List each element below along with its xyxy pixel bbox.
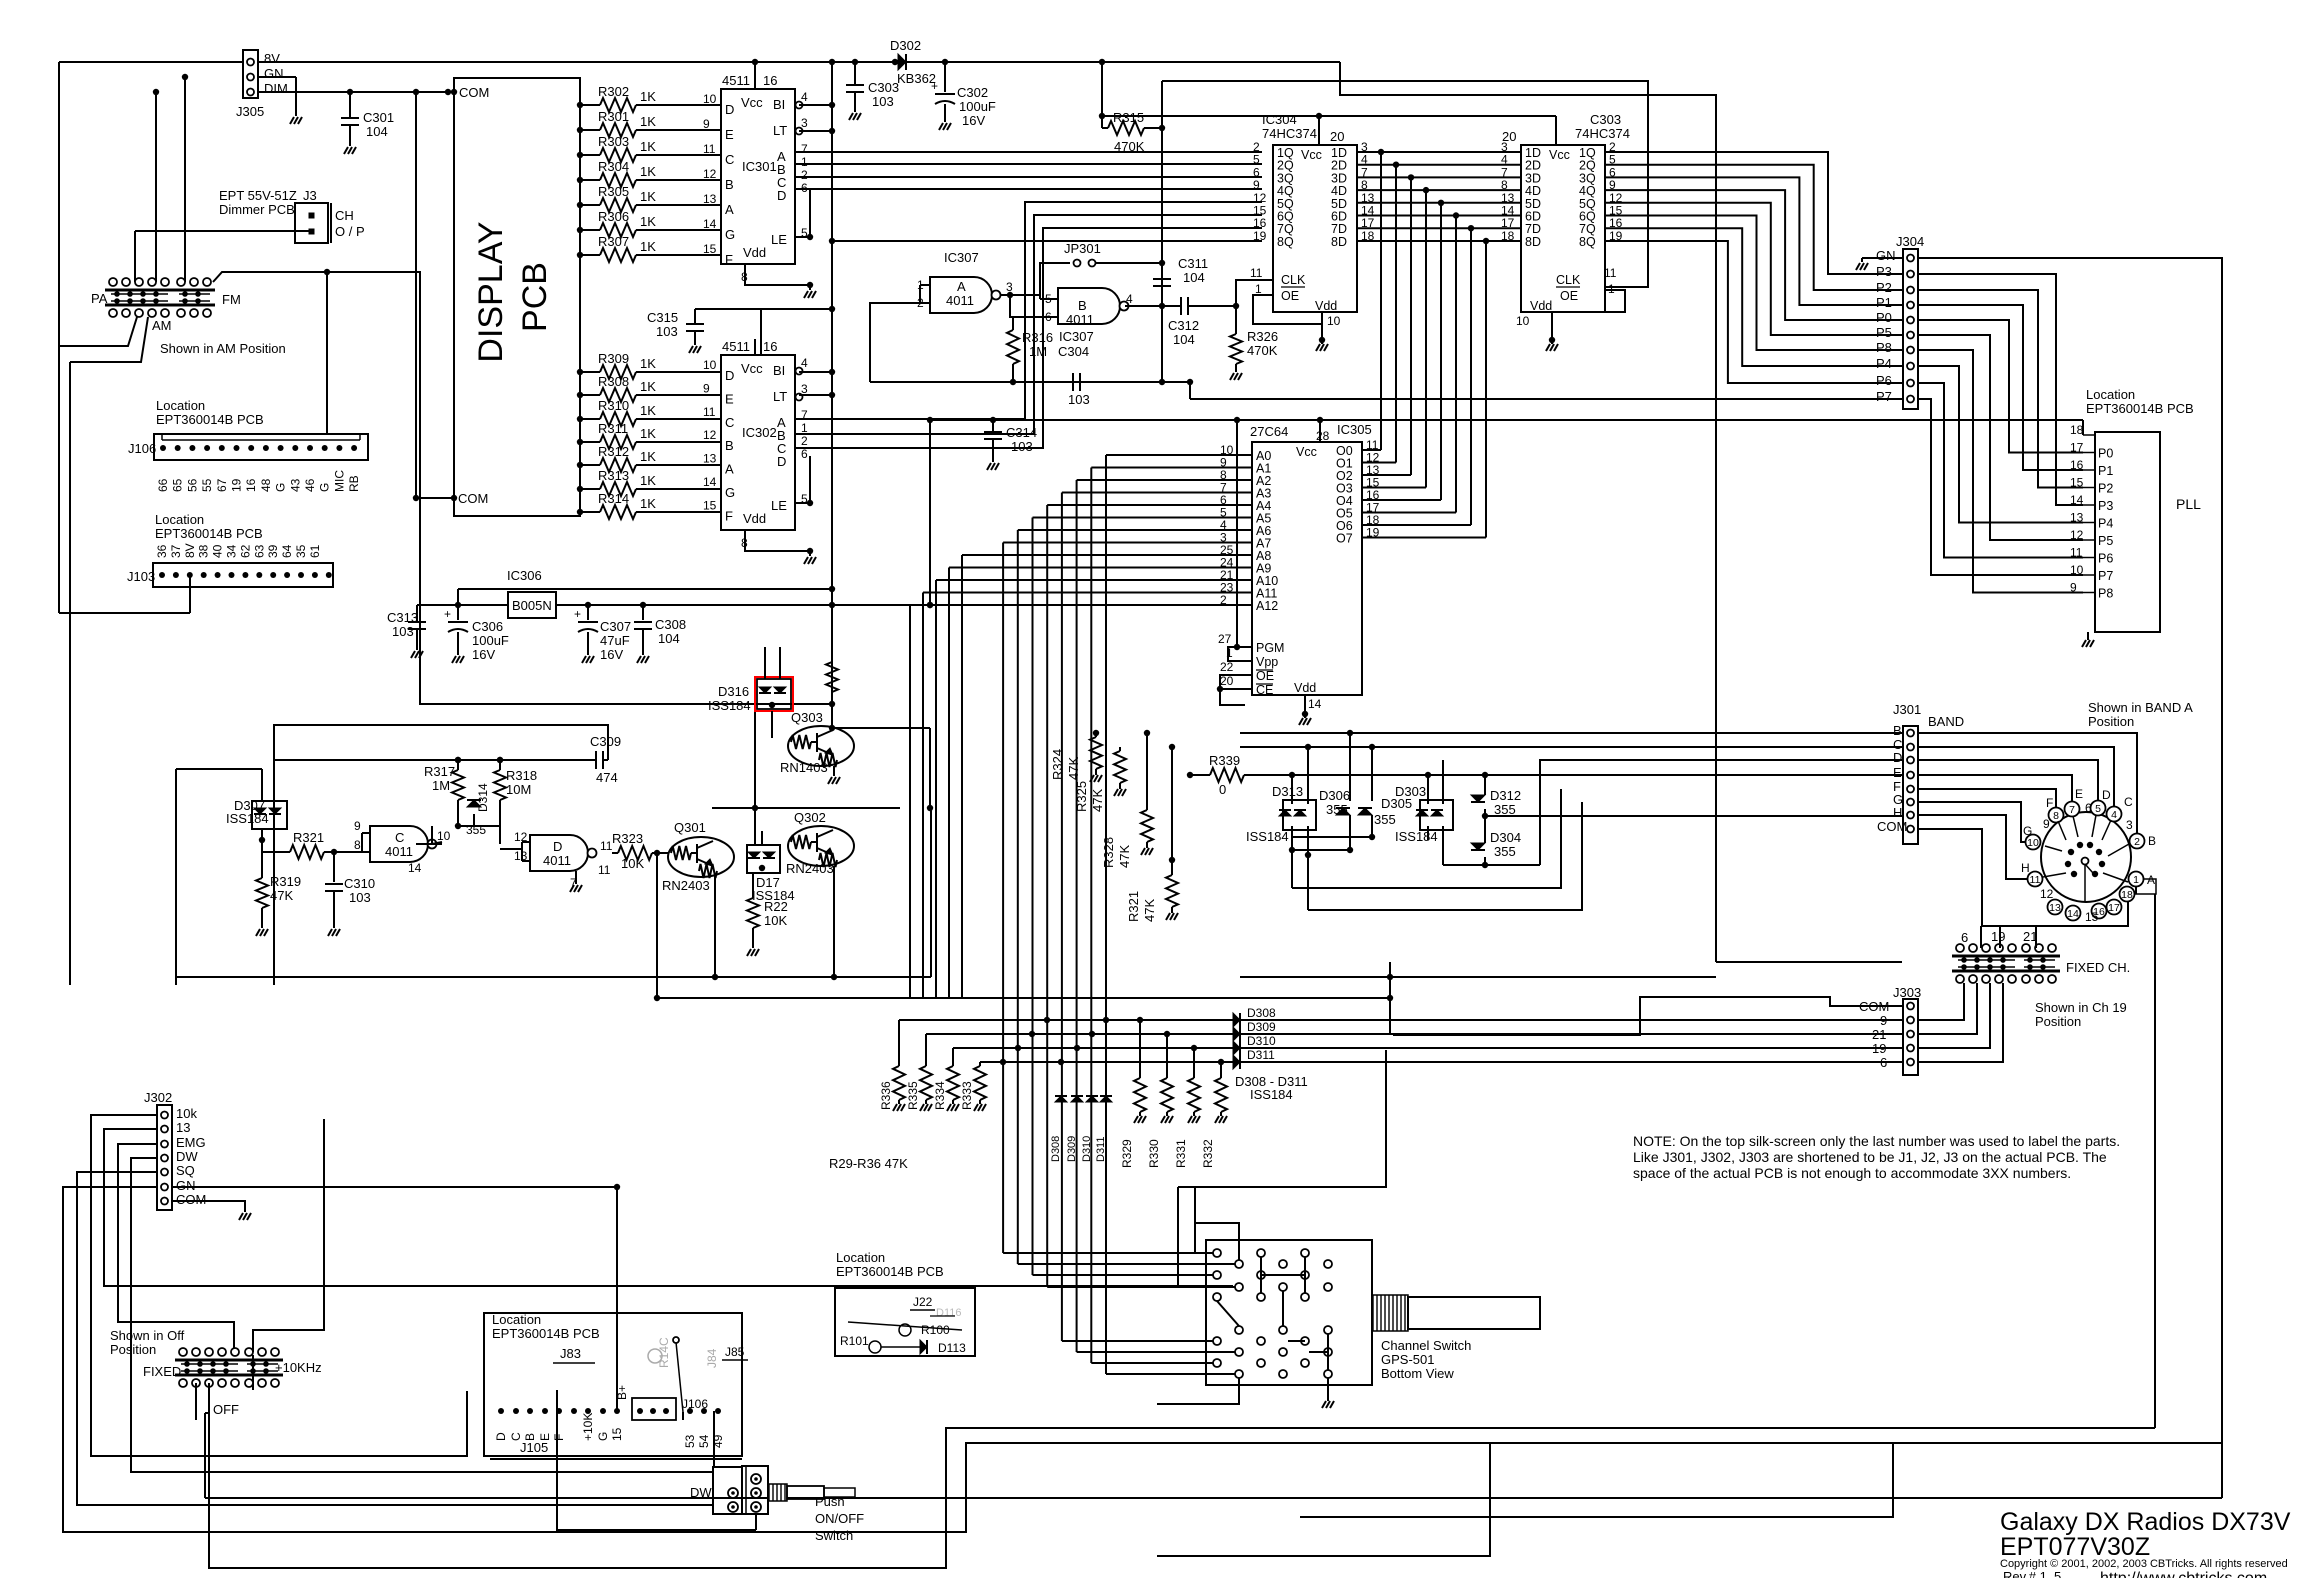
svg-text:7: 7 [2069,804,2075,816]
svg-text:C308: C308 [655,617,686,632]
svg-text:C312: C312 [1168,318,1199,333]
svg-text:P6: P6 [2098,552,2113,566]
svg-text:D310: D310 [1247,1034,1276,1048]
svg-text:J302: J302 [144,1090,172,1105]
svg-text:D: D [553,839,562,854]
svg-text:R309: R309 [598,351,629,366]
svg-text:Vdd: Vdd [1294,681,1316,695]
svg-text:ISS184: ISS184 [1246,829,1289,844]
svg-text:4011: 4011 [1066,312,1094,327]
svg-text:6: 6 [1961,930,1968,945]
svg-text:10K: 10K [764,913,787,928]
svg-text:19: 19 [1366,526,1380,540]
svg-text:1K: 1K [640,214,656,229]
svg-text:47uF: 47uF [600,633,630,648]
svg-text:LE: LE [771,232,787,247]
svg-text:14: 14 [1308,697,1322,711]
svg-text:20: 20 [1502,129,1516,144]
svg-text:16V: 16V [600,647,623,662]
svg-text:Dimmer PCB: Dimmer PCB [219,202,295,217]
svg-text:P7: P7 [1876,389,1892,404]
svg-text:18: 18 [2070,423,2084,437]
svg-text:10: 10 [1327,314,1341,328]
svg-text:4011: 4011 [385,844,413,859]
svg-text:8: 8 [354,838,361,852]
svg-text:Switch: Switch [815,1528,853,1543]
svg-text:RN1403: RN1403 [780,760,828,775]
svg-text:R321: R321 [1126,891,1141,922]
svg-text:IC306: IC306 [507,568,542,583]
svg-text:34: 34 [225,544,239,558]
svg-text:BAND: BAND [1928,714,1964,729]
svg-text:66: 66 [156,478,170,492]
svg-text:R329: R329 [1120,1139,1134,1168]
svg-text:+: + [931,79,938,93]
svg-text:C303: C303 [1590,112,1621,127]
svg-text:A: A [2147,873,2155,887]
svg-text:P5: P5 [1876,325,1892,340]
svg-text:9: 9 [703,117,710,131]
svg-text:Location: Location [155,512,204,527]
svg-text:NOTE: On the top silk-screen o: NOTE: On the top silk-screen only the la… [1633,1133,2120,1149]
svg-text:R328: R328 [1101,837,1116,868]
svg-text:Vpp: Vpp [1256,655,1278,669]
svg-text:10: 10 [437,829,451,843]
svg-text:B: B [2148,834,2156,848]
svg-text:R319: R319 [270,874,301,889]
svg-text:P7: P7 [2098,569,2113,583]
svg-text:R303: R303 [598,134,629,149]
svg-text:56: 56 [185,478,199,492]
svg-text:LE: LE [771,498,787,513]
svg-text:1K: 1K [640,89,656,104]
svg-text:R321: R321 [293,830,324,845]
svg-text:B005N: B005N [512,598,552,613]
svg-text:CLK: CLK [1556,273,1581,287]
svg-text:5: 5 [2095,803,2101,815]
svg-text:D310: D310 [1081,1136,1093,1162]
svg-text:355: 355 [1374,812,1396,827]
svg-text:P0: P0 [1876,310,1892,325]
svg-text:28: 28 [1316,429,1330,443]
svg-text:4011: 4011 [543,853,571,868]
svg-text:8: 8 [2053,810,2059,822]
svg-text:C: C [2124,795,2133,809]
svg-text:B: B [725,177,734,192]
svg-text:C302: C302 [957,85,988,100]
svg-text:74HC374: 74HC374 [1262,126,1317,141]
svg-text:10: 10 [1516,314,1530,328]
svg-text:47K: 47K [1117,845,1132,868]
svg-text:R305: R305 [598,184,629,199]
svg-text:0: 0 [1219,782,1226,797]
svg-text:35: 35 [294,544,308,558]
svg-text:6: 6 [801,447,808,461]
svg-text:1K: 1K [640,139,656,154]
svg-text:Vcc: Vcc [1296,445,1317,459]
svg-text:C306: C306 [472,619,503,634]
svg-text:R316: R316 [1022,330,1053,345]
svg-text:R313: R313 [598,468,629,483]
svg-text:Location: Location [836,1250,885,1265]
svg-text:C301: C301 [363,110,394,125]
svg-text:104: 104 [1183,270,1205,285]
svg-text:D311: D311 [1247,1048,1275,1062]
svg-text:D: D [494,1432,508,1441]
svg-text:D303: D303 [1395,784,1426,799]
svg-text:C310: C310 [344,876,375,891]
svg-text:R101: R101 [840,1334,869,1348]
svg-text:P8: P8 [2098,587,2113,601]
svg-text:P2: P2 [1876,280,1892,295]
svg-text:13: 13 [2049,902,2061,914]
svg-text:D313: D313 [1272,784,1303,799]
svg-text:3: 3 [2126,818,2133,832]
svg-text:R323: R323 [612,831,643,846]
svg-text:C307: C307 [600,619,631,634]
svg-text:PLL: PLL [2176,496,2201,512]
svg-text:Location: Location [156,398,205,413]
svg-text:C315: C315 [647,310,678,325]
svg-text:E: E [725,127,734,142]
svg-text:FIXED CH.: FIXED CH. [2066,960,2130,975]
svg-text:EPT360014B PCB: EPT360014B PCB [155,526,263,541]
svg-text:EPT360014B PCB: EPT360014B PCB [2086,401,2194,416]
svg-text:Q303: Q303 [791,710,823,725]
svg-text:14: 14 [703,475,717,489]
svg-text:11: 11 [703,142,716,156]
svg-text:OE: OE [1560,289,1578,303]
svg-text:47K: 47K [1066,757,1081,780]
svg-text:R317: R317 [424,764,455,779]
svg-text:D: D [725,368,734,383]
svg-text:PCB: PCB [516,262,554,332]
svg-text:IC302: IC302 [742,425,777,440]
svg-text:Vcc: Vcc [741,361,763,376]
svg-text:104: 104 [1173,332,1195,347]
svg-text:355: 355 [1494,844,1516,859]
svg-text:SQ: SQ [176,1163,195,1178]
svg-text:Shown in Off: Shown in Off [110,1328,185,1343]
svg-text:16: 16 [244,478,258,492]
svg-text:F: F [2046,796,2053,810]
svg-text:R311: R311 [598,421,628,436]
svg-text:13: 13 [703,452,717,466]
svg-text:8V: 8V [264,51,280,66]
svg-text:14: 14 [408,861,422,875]
svg-text:http://www.cbtricks.com: http://www.cbtricks.com [2100,1570,2267,1578]
svg-text:10M: 10M [506,782,531,797]
svg-text:C313: C313 [387,610,418,625]
svg-text:D: D [1893,750,1902,765]
svg-text:1K: 1K [640,496,656,511]
svg-text:CLK: CLK [1281,273,1306,287]
svg-text:Vdd: Vdd [1530,299,1552,313]
svg-text:R332: R332 [1201,1139,1215,1168]
svg-text:15: 15 [703,242,717,256]
svg-text:47K: 47K [1090,789,1105,812]
svg-text:100uF: 100uF [959,99,996,114]
svg-text:16V: 16V [472,647,495,662]
svg-text:1K: 1K [640,449,656,464]
svg-text:B: B [1078,298,1087,313]
svg-text:103: 103 [349,890,371,905]
svg-text:103: 103 [1068,392,1090,407]
svg-text:AM: AM [152,318,172,333]
svg-text:Vcc: Vcc [1301,148,1322,162]
svg-text:D: D [777,188,786,203]
svg-text:22: 22 [1220,660,1234,674]
svg-text:11: 11 [1250,266,1263,280]
svg-text:D: D [2102,788,2111,802]
svg-text:Q301: Q301 [674,820,706,835]
svg-text:8Q: 8Q [1277,235,1294,249]
svg-text:16V: 16V [962,113,985,128]
svg-text:65: 65 [171,478,185,492]
svg-text:D: D [777,454,786,469]
svg-text:D113: D113 [938,1341,966,1355]
svg-text:EPT360014B PCB: EPT360014B PCB [836,1264,944,1279]
svg-text:R336: R336 [879,1081,893,1110]
svg-text:4: 4 [2111,809,2117,821]
svg-text:R335: R335 [906,1081,920,1110]
svg-text:18: 18 [2121,889,2133,901]
svg-text:J85: J85 [725,1345,745,1359]
svg-text:E: E [2075,787,2083,801]
svg-text:64: 64 [280,544,294,558]
svg-text:A: A [725,462,734,477]
svg-text:474: 474 [596,770,618,785]
svg-text:R306: R306 [598,209,629,224]
svg-text:R334: R334 [933,1081,947,1110]
svg-text:20: 20 [1330,129,1344,144]
svg-text:IC301: IC301 [742,159,777,174]
svg-text:17: 17 [2108,902,2120,914]
svg-text:Shown in AM Position: Shown in AM Position [160,341,286,356]
svg-text:R304: R304 [598,159,629,174]
svg-text:C: C [725,415,734,430]
svg-text:Shown in BAND A: Shown in BAND A [2088,700,2193,715]
svg-text:8D: 8D [1331,235,1347,249]
svg-text:1K: 1K [640,403,656,418]
svg-text:13: 13 [176,1120,190,1135]
svg-text:J305: J305 [236,104,264,119]
svg-text:J105: J105 [520,1440,548,1455]
svg-text:104: 104 [366,124,388,139]
svg-text:FIXED: FIXED [143,1364,181,1379]
svg-text:+: + [444,607,451,621]
svg-text:P1: P1 [2098,464,2113,478]
svg-text:GN: GN [1876,248,1896,263]
svg-text:F: F [725,252,733,267]
svg-text:R308: R308 [598,374,629,389]
svg-text:BI: BI [773,363,785,378]
svg-text:EMG: EMG [176,1135,206,1150]
svg-text:C314: C314 [1006,425,1037,440]
svg-text:ISS184: ISS184 [226,811,269,826]
svg-text:DIM: DIM [264,81,288,96]
svg-text:14: 14 [2067,908,2079,920]
svg-text:53: 53 [683,1434,697,1448]
svg-text:74HC374: 74HC374 [1575,126,1630,141]
svg-text:H: H [2021,861,2030,875]
svg-text:G: G [2023,824,2032,838]
svg-text:470K: 470K [1114,139,1145,154]
svg-text:14: 14 [703,217,717,231]
svg-text:10: 10 [2027,837,2039,849]
svg-text:D316: D316 [718,684,749,699]
svg-text:10k: 10k [176,1106,197,1121]
svg-text:EPT360014B PCB: EPT360014B PCB [156,412,264,427]
svg-text:Shown in Ch 19: Shown in Ch 19 [2035,1000,2127,1015]
svg-text:Like J301, J302, J303 are shor: Like J301, J302, J303 are shortened to b… [1633,1149,2107,1165]
svg-text:PA: PA [91,291,108,306]
svg-text:+: + [574,607,581,621]
svg-text:+10K: +10K [581,1413,595,1441]
svg-text:4011: 4011 [946,293,974,308]
svg-text:11: 11 [598,863,611,877]
svg-text:104: 104 [658,631,680,646]
svg-text:D: D [725,102,734,117]
svg-text:CE: CE [1256,683,1273,697]
svg-text:C311: C311 [1178,256,1208,271]
svg-text:103: 103 [1011,439,1033,454]
svg-text:D306: D306 [1319,788,1350,803]
svg-text:67: 67 [215,478,229,492]
svg-text:E: E [1893,765,1902,780]
svg-text:A: A [725,202,734,217]
svg-text:10: 10 [703,92,717,106]
svg-text:4511: 4511 [722,73,750,88]
svg-text:2: 2 [801,168,808,182]
svg-text:1K: 1K [640,239,656,254]
svg-text:470K: 470K [1247,343,1278,358]
svg-text:G: G [596,1432,610,1441]
svg-text:1K: 1K [640,114,656,129]
svg-text:38: 38 [197,544,211,558]
svg-text:JP301: JP301 [1064,241,1101,256]
svg-text:19: 19 [230,478,244,492]
svg-text:2: 2 [2134,836,2140,848]
svg-text:O7: O7 [1336,532,1353,546]
svg-text:R314: R314 [598,491,629,506]
svg-text:DW: DW [690,1485,712,1500]
svg-text:P5: P5 [2098,534,2113,548]
svg-text:Vdd: Vdd [743,245,766,260]
svg-text:4: 4 [1126,292,1133,306]
svg-text:C: C [725,152,734,167]
svg-text:7: 7 [801,142,808,156]
svg-text:EPT077V30Z: EPT077V30Z [2000,1533,2150,1561]
svg-text:COM: COM [458,491,488,506]
svg-text:19: 19 [1253,229,1267,243]
svg-text:11: 11 [703,405,716,419]
svg-text:19: 19 [1991,929,2005,944]
svg-text:Rev.# 1. 5: Rev.# 1. 5 [2003,1569,2061,1578]
svg-text:Location: Location [2086,387,2135,402]
svg-text:A12: A12 [1256,599,1278,613]
svg-text:4511: 4511 [722,339,750,354]
svg-text:R339: R339 [1209,753,1240,768]
svg-text:40: 40 [211,544,225,558]
svg-text:1: 1 [1255,282,1262,296]
svg-text:OE: OE [1281,289,1299,303]
svg-text:103: 103 [392,624,414,639]
svg-text:R301: R301 [598,109,629,124]
svg-text:10K: 10K [621,856,644,871]
svg-text:1: 1 [801,421,808,435]
svg-text:1K: 1K [640,473,656,488]
svg-text:12: 12 [703,167,717,181]
svg-text:103: 103 [656,324,678,339]
svg-text:100uF: 100uF [472,633,509,648]
svg-text:13: 13 [703,192,717,206]
svg-text:Position: Position [110,1342,156,1357]
svg-text:DISPLAY: DISPLAY [472,221,510,362]
svg-text:2: 2 [801,434,808,448]
svg-text:46: 46 [303,478,317,492]
svg-text:355: 355 [1326,802,1348,817]
svg-text:R324: R324 [1050,749,1065,780]
svg-text:P1: P1 [1876,295,1892,310]
svg-text:EPT360014B PCB: EPT360014B PCB [492,1326,600,1341]
svg-text:8D: 8D [1525,235,1541,249]
svg-text:Q302: Q302 [794,810,826,825]
svg-text:8V: 8V [183,543,197,558]
svg-text:27: 27 [1218,632,1232,646]
svg-text:1M: 1M [1029,344,1047,359]
svg-text:39: 39 [266,544,280,558]
svg-text:D312: D312 [1490,788,1521,803]
svg-text:1M: 1M [432,778,450,793]
svg-text:11: 11 [600,839,613,853]
svg-text:55: 55 [200,478,214,492]
svg-text:11: 11 [1604,266,1617,280]
svg-text:P3: P3 [2098,499,2113,513]
svg-text:J22: J22 [913,1295,933,1309]
svg-text:G: G [318,483,332,492]
svg-text:R22: R22 [764,899,788,914]
svg-text:R100: R100 [921,1323,950,1337]
svg-text:EPT 55V-51Z: EPT 55V-51Z [219,188,297,203]
svg-text:8Q: 8Q [1579,235,1596,249]
svg-text:D308: D308 [1247,1006,1276,1020]
svg-text:9: 9 [354,819,361,833]
svg-text:12: 12 [703,428,717,442]
svg-text:1K: 1K [640,379,656,394]
svg-text:RB: RB [347,475,361,492]
svg-text:Location: Location [492,1312,541,1327]
svg-text:R307: R307 [598,234,629,249]
svg-text:15: 15 [2085,910,2099,924]
svg-text:D302: D302 [890,38,921,53]
svg-text:IC307: IC307 [1059,329,1094,344]
svg-text:J303: J303 [1893,985,1921,1000]
svg-text:OE: OE [1256,669,1274,683]
svg-text:A: A [957,279,966,294]
svg-text:O / P: O / P [335,224,365,239]
svg-text:47K: 47K [270,888,293,903]
svg-text:ISS184: ISS184 [1395,829,1438,844]
svg-text:1K: 1K [640,426,656,441]
svg-text:D116: D116 [936,1307,961,1319]
svg-text:43: 43 [288,478,302,492]
svg-text:G: G [725,485,735,500]
svg-text:space of the actual PCB is not: space of the actual PCB is not enough to… [1633,1165,2071,1181]
svg-text:P6: P6 [1876,373,1892,388]
svg-text:D311: D311 [1095,1137,1107,1162]
svg-text:P3: P3 [1876,264,1892,279]
